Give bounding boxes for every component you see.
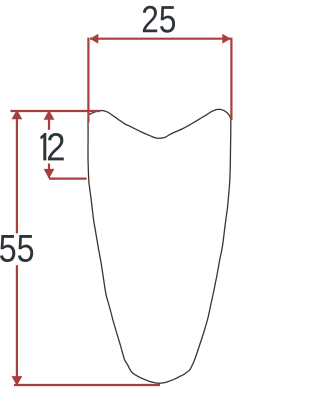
arrowhead 12 top — [44, 110, 55, 120]
extension line left (width) — [87, 38, 89, 123]
rim cross-section dimension drawing 237x394 — [0, 0, 237, 394]
arrowhead 55 top — [12, 110, 23, 120]
label box 12 — [40, 130, 60, 164]
label 12 digit 2 — [48, 133, 64, 160]
white page background strip (bottom) — [0, 386, 237, 394]
label box 55 — [5, 233, 26, 265]
dimension line 55 (vertical, left) — [16, 111, 18, 386]
arrowhead 55 bottom — [12, 376, 23, 386]
label 55 — [0, 235, 33, 262]
label 25 — [143, 6, 175, 33]
arrowhead 25 left — [90, 34, 99, 44]
arrowhead 25 right — [222, 34, 231, 44]
white page background column (right) — [232, 122, 237, 394]
extension line middle (12 bottom datum) — [49, 178, 87, 180]
dimension line 12 (vertical) — [48, 111, 50, 178]
extension line right (width) — [230, 38, 232, 120]
extension line bottom (height datum) — [14, 384, 160, 386]
extension line top (height datum) — [11, 110, 101, 112]
arrowhead 12 bottom — [44, 169, 55, 179]
dimension line 25 (horizontal, top) — [90, 38, 231, 40]
rim profile outline — [88, 109, 231, 383]
label 12 digit 1 — [41, 133, 47, 160]
